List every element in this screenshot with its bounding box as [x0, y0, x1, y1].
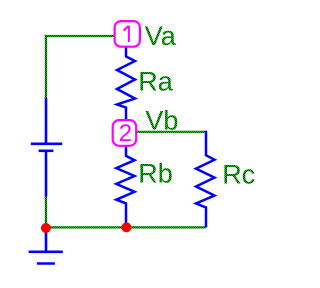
wire node2 to Rc	[136, 131, 206, 133]
battery V1	[31, 98, 62, 197]
wire top horizontal node1 to left	[45, 35, 116, 37]
svg-text:Rc: Rc	[222, 159, 255, 189]
resistor Rb	[116, 146, 134, 225]
resistor Ra	[117, 47, 135, 121]
node 1	[115, 21, 140, 47]
junction dot left	[41, 223, 51, 233]
svg-text:2: 2	[119, 120, 132, 147]
resistor Rc	[196, 131, 215, 228]
svg-text:Vb: Vb	[145, 105, 178, 135]
node 2	[113, 120, 137, 147]
ground	[29, 228, 63, 264]
svg-text:Va: Va	[145, 21, 177, 51]
wire left vertical upper	[45, 35, 47, 99]
wire left vertical lower battery to junction	[45, 196, 47, 228]
wire bottom horizontal	[45, 226, 206, 228]
svg-text:Ra: Ra	[138, 66, 173, 96]
svg-text:Rb: Rb	[138, 158, 173, 188]
junction dot middle	[121, 222, 131, 232]
